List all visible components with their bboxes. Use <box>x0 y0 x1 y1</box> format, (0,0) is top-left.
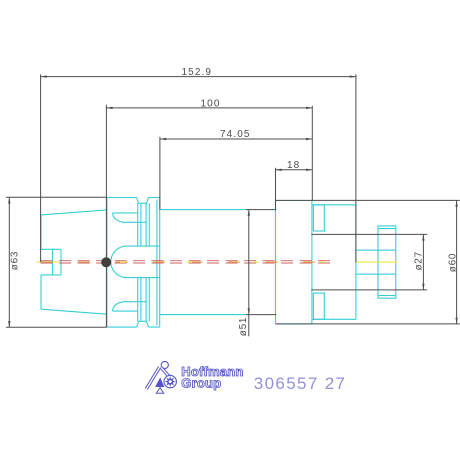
dimension o60 bottom extension <box>276 323 460 325</box>
dimension o27 top arrow <box>422 234 424 240</box>
right body bottom edge <box>312 318 356 320</box>
dimensions: dark grey <box>6 74 460 336</box>
centerline <box>37 261 398 263</box>
datum dot <box>101 257 111 267</box>
flange groove vertical 3 upper <box>145 203 147 246</box>
flange face contour arc lower <box>113 302 147 311</box>
logo gear hole <box>169 380 172 383</box>
svg-text:Group: Group <box>181 375 221 390</box>
svg-text:ø27: ø27 <box>414 251 425 270</box>
clamp screw top <box>313 205 324 231</box>
svg-text:18: 18 <box>287 160 300 171</box>
dimension 152.9 line <box>41 76 356 78</box>
dimension 18 left extension <box>275 168 277 210</box>
cylinder o51 top edge <box>160 209 246 211</box>
stub bottom edge <box>356 273 396 275</box>
flange groove vertical 4 upper <box>148 203 150 246</box>
dimension 74.05 left arrow <box>160 138 166 140</box>
dimension 152.9 right extension <box>355 74 357 262</box>
logo left leg core <box>146 367 159 389</box>
dimension 100 left arrow <box>106 107 112 109</box>
dimension 18 line <box>276 169 313 171</box>
dimension o60 line <box>456 201 458 325</box>
dimension 100 line <box>106 107 312 109</box>
HSK taper tip left face upper <box>40 215 42 249</box>
flange o60 block top edge <box>276 200 312 202</box>
centerline yellow right segment <box>356 261 398 263</box>
dimension 100/74.05/18 right extension <box>311 106 313 201</box>
tip bore inner vertical <box>52 249 54 275</box>
part outline: cyan geometry <box>41 198 396 328</box>
logo left leg outer <box>146 367 159 389</box>
flange bottom notch <box>137 321 149 327</box>
svg-text:100: 100 <box>201 99 221 110</box>
logo right arm core <box>162 368 171 378</box>
dimension o60 top extension <box>276 199 460 201</box>
flange o60 block right face <box>311 201 313 324</box>
right body top edge <box>312 204 356 206</box>
flange top edge right <box>149 197 160 199</box>
dimension 152.9 left extension <box>40 74 42 262</box>
dimension o63 top extension <box>6 196 107 198</box>
flange bottom edge left <box>107 326 137 328</box>
dimension o27 top extension <box>311 233 427 235</box>
dimension texts <box>10 67 459 336</box>
dimension o63 bottom extension <box>6 326 107 328</box>
HSK taper tip left face lower <box>40 275 42 309</box>
dimension 18 left arrow <box>276 169 282 171</box>
svg-text:ø51: ø51 <box>238 317 249 336</box>
drive slot capsule <box>111 246 160 278</box>
dimension o63 bottom arrow <box>8 321 10 327</box>
dimension 152.9 left arrow <box>41 75 47 77</box>
flange groove vertical 2 upper <box>140 203 142 246</box>
dimension 74.05 left extension <box>159 137 161 210</box>
right body end face <box>355 205 357 319</box>
end piece outline <box>378 226 396 298</box>
svg-text:74.05: 74.05 <box>220 129 251 140</box>
dimension 18 right arrow <box>306 169 312 171</box>
stub top edge <box>356 249 396 251</box>
dimension o51 line <box>248 210 250 337</box>
cylinder o51 bottom edge <box>160 314 246 316</box>
dimension 152.9 right arrow <box>350 75 356 77</box>
tip bore bottom <box>41 274 61 276</box>
centerline yellow gap dashes <box>37 261 42 263</box>
svg-text:152.9: 152.9 <box>182 67 213 78</box>
dimension 74.05 line <box>160 138 312 140</box>
flange groove vertical 1 upper <box>137 203 139 246</box>
tip bore end vertical <box>60 249 62 275</box>
logo filled triangle <box>155 377 164 387</box>
flange groove vertical 3 lower <box>145 278 147 322</box>
flange top notch <box>137 198 149 204</box>
logo gear star <box>165 376 176 387</box>
flange groove vertical 1 lower <box>137 278 139 322</box>
logo right arm outer <box>162 368 171 378</box>
dimension o63 top arrow <box>8 197 10 203</box>
Hoffmann Group logo <box>146 361 243 393</box>
taper top edge <box>41 210 107 215</box>
flange o60 block left face <box>275 201 277 324</box>
dimension o51 top arrow <box>248 210 250 216</box>
flange left face <box>106 198 108 328</box>
dimension o51 bottom extension <box>246 314 276 316</box>
flange groove vertical 2 lower <box>140 278 142 322</box>
dimension o63 line <box>8 197 10 327</box>
flange groove vertical 4 lower <box>148 278 150 322</box>
dimension 100 right arrow <box>306 107 312 109</box>
clamp screw bottom <box>313 293 324 319</box>
end piece cap line top <box>378 228 396 230</box>
dimension o27 bottom extension <box>311 289 427 291</box>
svg-text:ø60: ø60 <box>447 253 458 272</box>
dimension o27 bottom arrow <box>422 284 424 290</box>
svg-text:306557 27: 306557 27 <box>254 374 347 393</box>
centerline red upper dashes <box>41 260 330 262</box>
flange right face <box>159 198 161 328</box>
end piece cap line bottom <box>378 295 396 297</box>
dimension o60 bottom arrow <box>455 318 457 324</box>
dimension o27 line <box>422 234 424 290</box>
dimension o51 bottom arrow <box>248 308 250 314</box>
dimension o60 top arrow <box>455 201 457 207</box>
logo head circle <box>161 361 168 368</box>
svg-text:ø63: ø63 <box>10 251 21 270</box>
flange face chamfer vertical <box>156 200 158 326</box>
taper bottom edge <box>41 309 107 314</box>
logo gear circle <box>164 375 176 387</box>
tip bore top <box>41 248 61 250</box>
flange face contour line lower <box>113 310 138 312</box>
flange bottom edge right <box>149 326 160 328</box>
centerline orange core dashes <box>41 261 330 263</box>
flange o60 block bottom edge <box>276 323 312 325</box>
centerline red lower dashes <box>41 262 330 264</box>
flange face contour arc upper <box>113 213 147 222</box>
flange top edge left <box>107 197 137 199</box>
dimension 74.05 right arrow <box>306 138 312 140</box>
logo outlined triangle <box>156 388 163 394</box>
dimension 100 left extension <box>105 105 107 328</box>
dimension o51 top extension <box>246 209 276 211</box>
flange face contour line upper <box>113 212 138 214</box>
